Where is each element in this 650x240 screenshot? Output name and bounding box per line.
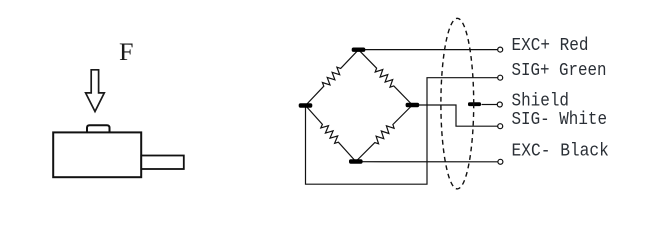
resistor R2 (top-right bridge arm) xyxy=(359,50,413,105)
terminal EXC+ xyxy=(498,47,503,52)
terminal SIG+ xyxy=(498,75,503,80)
resistor R1 (top-left bridge arm) xyxy=(306,50,359,106)
terminal EXC- xyxy=(498,159,503,164)
svg-text:F: F xyxy=(119,39,134,66)
node top (bridge corner) xyxy=(352,48,366,52)
cable sheath ellipse (dashed) xyxy=(441,18,474,189)
terminal Shield xyxy=(497,102,502,107)
load cell body xyxy=(53,132,141,177)
terminal SIG- xyxy=(498,124,503,129)
wire EXC- (bottom node to terminal) xyxy=(356,161,498,163)
node left (bridge corner) xyxy=(299,103,313,107)
node right (bridge corner) xyxy=(406,103,420,107)
resistor R3 (bottom-left bridge arm) xyxy=(306,106,356,162)
wire SIG- (right node, right, down, to terminal) xyxy=(412,105,497,126)
svg-text:EXC- Black: EXC- Black xyxy=(512,141,609,161)
svg-text:Shield: Shield xyxy=(512,91,570,111)
svg-text:EXC+ Red: EXC+ Red xyxy=(512,36,589,56)
svg-text:SIG+ Green: SIG+ Green xyxy=(512,61,607,81)
load cell button cap xyxy=(87,125,110,132)
node bottom (bridge corner) xyxy=(349,159,363,163)
resistor R4 (bottom-right bridge arm) xyxy=(356,105,413,162)
load cell cable stub xyxy=(141,156,184,170)
wire shield lead xyxy=(482,104,498,106)
wire EXC+ (top node to terminal) xyxy=(359,49,498,51)
svg-text:SIG- White: SIG- White xyxy=(512,110,608,130)
force arrow (hollow, pointing down) xyxy=(86,70,105,112)
shield conductor bar xyxy=(468,102,481,106)
wire SIG+ (left node, down, across bottom, up, to terminal) xyxy=(306,78,498,185)
